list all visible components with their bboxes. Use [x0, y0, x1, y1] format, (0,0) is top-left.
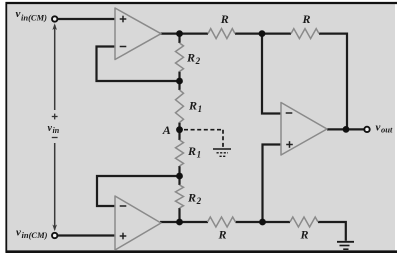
svg-text:R: R	[300, 228, 309, 242]
svg-text:in: in	[53, 126, 60, 135]
svg-text:v: v	[16, 8, 21, 20]
svg-text:in(CM): in(CM)	[21, 12, 47, 22]
svg-text:1: 1	[198, 104, 203, 114]
svg-text:R: R	[186, 51, 195, 65]
svg-text:R: R	[302, 12, 311, 26]
svg-text:1: 1	[197, 150, 202, 160]
svg-text:R: R	[188, 99, 197, 113]
svg-text:R: R	[220, 12, 229, 26]
svg-text:R: R	[187, 144, 196, 158]
svg-text:in(CM): in(CM)	[22, 230, 48, 240]
svg-text:v: v	[376, 121, 381, 133]
svg-text:2: 2	[196, 196, 202, 206]
svg-text:R: R	[187, 191, 196, 205]
svg-text:v: v	[16, 226, 21, 238]
svg-text:A: A	[162, 123, 171, 137]
svg-text:out: out	[381, 125, 393, 135]
svg-text:2: 2	[195, 56, 201, 66]
svg-text:R: R	[218, 228, 227, 242]
